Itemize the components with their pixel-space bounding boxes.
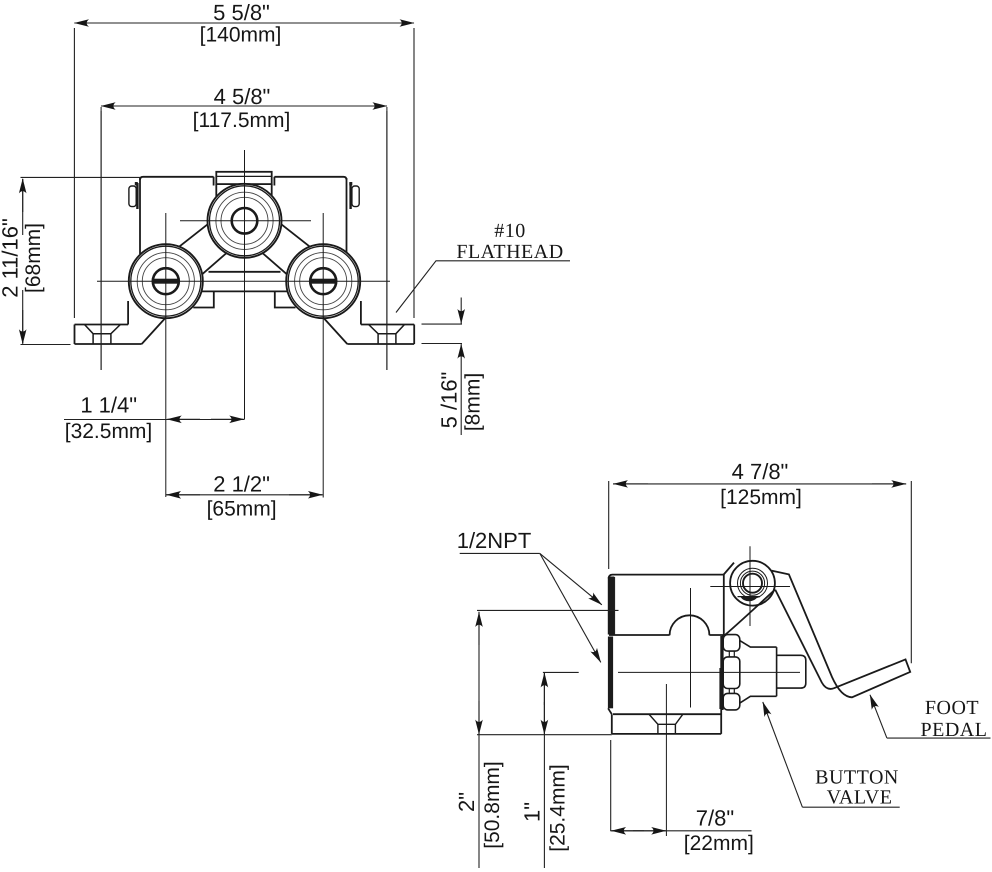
left side clip rounded tab (129, 186, 136, 207)
centerline horizontal top port (180, 220, 311, 222)
centerline vertical left port (165, 213, 167, 497)
left port outer ring (129, 244, 203, 318)
svg-text:[50.8mm]: [50.8mm] (481, 761, 504, 849)
1/2NPT leader lower (540, 553, 601, 662)
dim 1in vertical line (543, 672, 545, 868)
svg-text:[65mm]: [65mm] (207, 498, 277, 521)
1/2NPT label underline (460, 552, 540, 554)
svg-text:FLATHEAD: FLATHEAD (456, 241, 563, 263)
foot pedal lever (772, 571, 911, 698)
dim 7/8 line with text underline (611, 830, 752, 832)
svg-text:5 /16": 5 /16" (437, 372, 462, 429)
web upper-right inner (263, 254, 287, 275)
pivot thread chord (738, 596, 761, 598)
top mounting tab (216, 172, 271, 184)
right step under strut (275, 291, 296, 307)
centerline vertical right port (322, 213, 324, 498)
lower block inlet boss dark band (608, 637, 613, 709)
right port outer ring (286, 244, 360, 318)
block split line (609, 634, 724, 636)
svg-text:5 5/8": 5 5/8" (213, 0, 270, 25)
dim 7/8 extension lines (610, 740, 612, 831)
svg-text:#10: #10 (494, 220, 526, 242)
pivot-to-body fillet (725, 590, 775, 636)
button valve hex lobe 1 (723, 635, 740, 652)
centerline vertical top port (244, 150, 246, 419)
dim 4-5/8 line (101, 105, 387, 107)
right foot boss edge (360, 301, 362, 325)
left countersink (85, 325, 121, 345)
dim 5/16 reference lines (422, 324, 463, 343)
left foot chamfer to port boss (142, 318, 166, 345)
button valve tapered housing (740, 641, 777, 704)
svg-text:4 7/8": 4 7/8" (732, 459, 789, 484)
1/2NPT leader upper (540, 553, 602, 604)
left side clip dark mark (135, 182, 138, 185)
web upper-left inner (202, 254, 226, 275)
centerline left foot hole (100, 107, 102, 370)
left foot bottom (75, 343, 142, 345)
button valve hex lobe 2 (723, 657, 740, 689)
upper block inlet boss dark band (608, 577, 614, 635)
dome centerline (690, 588, 692, 708)
lower strut bottom line (200, 290, 290, 292)
svg-text:[8mm]: [8mm] (462, 373, 485, 431)
dim 4-5/8 extension lines (101, 111, 387, 370)
svg-text:1/2NPT: 1/2NPT (457, 528, 532, 553)
svg-text:VALVE: VALVE (827, 787, 893, 809)
right port hole (310, 268, 336, 294)
pivot horizontal centerline (710, 586, 790, 588)
svg-text:1": 1" (520, 802, 545, 822)
button valve label leader (802, 806, 899, 808)
svg-text:4 5/8": 4 5/8" (214, 84, 271, 109)
svg-text:[25.4mm]: [25.4mm] (547, 764, 570, 852)
pivot thread dark wedge (741, 597, 758, 601)
dim 5-5/8 extension lines (74, 28, 414, 318)
top tab inner line (216, 175, 271, 177)
dim 2-11/16 extension lines (21, 177, 141, 344)
right port screw slot (310, 279, 337, 284)
svg-text:[140mm]: [140mm] (200, 24, 282, 47)
dim 5/16 arrows (460, 298, 462, 324)
flathead leader (396, 261, 570, 313)
upper block top edge (609, 575, 724, 579)
left foot boss edge (127, 301, 129, 325)
right countersink (369, 325, 405, 345)
svg-text:[125mm]: [125mm] (720, 486, 802, 509)
button valve flange edge (722, 635, 724, 711)
upper block left edge (608, 577, 610, 635)
svg-text:7/8": 7/8" (696, 806, 734, 831)
foot pedal label leader (887, 737, 991, 739)
dim 2-1/2 line (166, 494, 323, 496)
svg-text:PEDAL: PEDAL (921, 719, 988, 741)
upper block right edge (723, 575, 725, 636)
right port inner rings (295, 253, 352, 310)
right foot chamfer to port boss (323, 318, 347, 345)
svg-text:1 1/4": 1 1/4" (80, 393, 137, 418)
right side clip thick edge (349, 183, 351, 209)
top port outer ring (208, 184, 282, 258)
svg-text:2 1/2": 2 1/2" (213, 472, 270, 497)
left side clip thick edge (136, 183, 138, 209)
pivot inner rings (738, 568, 768, 598)
web upper-left outer (178, 224, 208, 248)
right side clip rounded tab (352, 186, 359, 207)
centerline horizontal side ports (97, 280, 390, 282)
base plate top (613, 713, 721, 715)
right foot right edge (413, 325, 415, 345)
right foot bottom (347, 343, 414, 345)
valve body right edge (346, 178, 348, 253)
dim 2in vertical line (478, 612, 480, 868)
SIDE VIEW GROUP (608, 546, 910, 836)
hex neck lines (729, 651, 734, 693)
svg-text:FOOT: FOOT (925, 697, 979, 719)
svg-text:[32.5mm]: [32.5mm] (65, 420, 153, 443)
centerline right foot hole (386, 107, 388, 370)
left step under strut (193, 291, 214, 307)
dim 1in reference line (543, 671, 579, 673)
lower strut top line (209, 271, 281, 273)
dim 2-11/16 line (22, 179, 24, 344)
button plunger (777, 655, 806, 688)
valve body left edge (139, 178, 141, 254)
right side clip dark mark (349, 182, 352, 185)
button valve body dark band (719, 668, 722, 709)
pivot vertical centerline (749, 546, 751, 626)
top port hole (232, 208, 258, 234)
base plate left edge (611, 714, 613, 734)
dim 4-7/8 extension lines (609, 481, 912, 663)
dim 4-7/8 line (613, 483, 906, 485)
pivot boss outer circle (730, 561, 775, 606)
left port hole (153, 268, 179, 294)
dim 5-5/8 line (74, 22, 414, 24)
left foot left edge (74, 325, 76, 345)
left port screw slot (152, 279, 179, 284)
web upper-right outer (281, 224, 311, 248)
svg-text:2": 2" (454, 792, 479, 812)
outlet centerline (665, 684, 667, 836)
svg-text:2 11/16": 2 11/16" (0, 218, 23, 298)
svg-text:[22mm]: [22mm] (684, 832, 754, 855)
valve body top edge (140, 177, 347, 180)
pivot chamfer line (724, 563, 734, 575)
button valve centerline (618, 671, 800, 673)
FRONT VIEW GROUP (75, 107, 415, 498)
svg-text:BUTTON: BUTTON (815, 767, 899, 789)
lower block left chamfer (608, 708, 612, 714)
dim 2in reference lines (477, 610, 619, 734)
base plate bottom (612, 733, 721, 735)
svg-text:[117.5mm]: [117.5mm] (193, 109, 291, 132)
button valve hex lobe 3 (723, 693, 740, 710)
bottom outlet countersink (649, 714, 683, 734)
left foot flange top (75, 324, 129, 326)
top tab side walls (216, 184, 271, 196)
left port inner rings (137, 253, 194, 310)
dim 1-1/4 line with text underline (64, 419, 245, 421)
svg-text:[68mm]: [68mm] (22, 223, 45, 293)
right foot flange top (361, 324, 414, 326)
body step notches beside top tab (214, 177, 275, 186)
top port inner rings (216, 192, 273, 249)
lower block right edge (720, 636, 722, 734)
spring dome (670, 615, 710, 635)
